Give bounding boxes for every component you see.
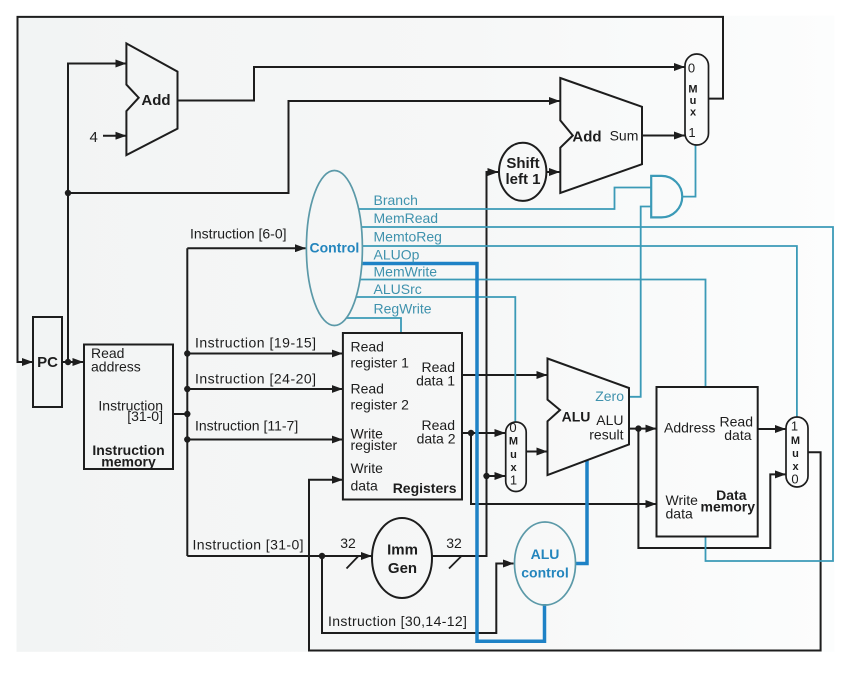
svg-text:Instruction [30,14-12]: Instruction [30,14-12] [328, 613, 467, 629]
svg-text:Instruction [6-0]: Instruction [6-0] [190, 226, 287, 242]
svg-text:u: u [690, 95, 697, 107]
svg-text:control: control [521, 565, 568, 581]
svg-text:register 2: register 2 [351, 397, 410, 413]
svg-text:x: x [690, 107, 697, 119]
svg-text:Sum: Sum [610, 128, 639, 144]
svg-text:1: 1 [510, 473, 517, 488]
svg-text:Registers: Registers [393, 480, 457, 496]
svg-text:data: data [351, 478, 378, 494]
svg-text:MemtoReg: MemtoReg [374, 229, 442, 245]
svg-text:Instruction [19-15]: Instruction [19-15] [195, 335, 317, 351]
svg-text:ALU: ALU [531, 546, 560, 562]
svg-text:register 1: register 1 [351, 355, 410, 371]
svg-text:Write: Write [351, 460, 384, 476]
svg-text:Add: Add [141, 92, 170, 109]
svg-text:ALU: ALU [562, 409, 591, 425]
svg-text:Gen: Gen [388, 560, 417, 577]
svg-text:M: M [509, 436, 518, 448]
svg-text:PC: PC [37, 354, 58, 371]
svg-text:register: register [351, 437, 398, 453]
svg-text:Control: Control [310, 240, 360, 256]
svg-text:x: x [792, 461, 799, 473]
svg-text:Shift: Shift [506, 155, 539, 172]
svg-text:MemRead: MemRead [374, 210, 439, 226]
svg-text:Address: Address [664, 420, 715, 436]
svg-text:data: data [666, 506, 693, 522]
svg-text:M: M [791, 435, 800, 447]
svg-text:Read: Read [351, 381, 384, 397]
svg-text:32: 32 [340, 535, 356, 551]
svg-text:Instruction [31-0]: Instruction [31-0] [193, 537, 304, 553]
svg-text:RegWrite: RegWrite [374, 301, 432, 317]
svg-text:data: data [724, 427, 751, 443]
svg-text:u: u [792, 448, 799, 460]
svg-text:address: address [91, 359, 141, 375]
svg-text:Instruction [11-7]: Instruction [11-7] [195, 418, 298, 434]
svg-text:ALUOp: ALUOp [374, 247, 420, 263]
svg-text:data 1: data 1 [416, 372, 455, 388]
svg-text:u: u [510, 449, 517, 461]
svg-text:Zero: Zero [595, 388, 624, 404]
svg-text:data 2: data 2 [417, 430, 456, 446]
svg-text:0: 0 [688, 61, 695, 76]
svg-text:left 1: left 1 [505, 171, 540, 188]
svg-text:result: result [589, 427, 623, 443]
svg-text:Imm: Imm [387, 542, 418, 559]
svg-text:32: 32 [446, 535, 462, 551]
svg-text:memory: memory [701, 499, 756, 515]
svg-text:[31-0]: [31-0] [127, 408, 163, 424]
svg-text:Instruction [24-20]: Instruction [24-20] [195, 371, 317, 387]
svg-text:MemWrite: MemWrite [374, 264, 438, 280]
svg-text:M: M [688, 84, 697, 96]
svg-text:4: 4 [90, 129, 98, 146]
svg-text:1: 1 [791, 419, 798, 434]
svg-text:ALUSrc: ALUSrc [374, 281, 422, 297]
svg-text:x: x [510, 462, 517, 474]
svg-text:Read: Read [351, 339, 384, 355]
svg-text:1: 1 [688, 125, 695, 140]
svg-text:Add: Add [572, 129, 601, 146]
svg-text:Branch: Branch [374, 192, 418, 208]
svg-text:memory: memory [101, 454, 156, 470]
svg-text:0: 0 [791, 472, 798, 487]
svg-text:0: 0 [509, 420, 516, 435]
